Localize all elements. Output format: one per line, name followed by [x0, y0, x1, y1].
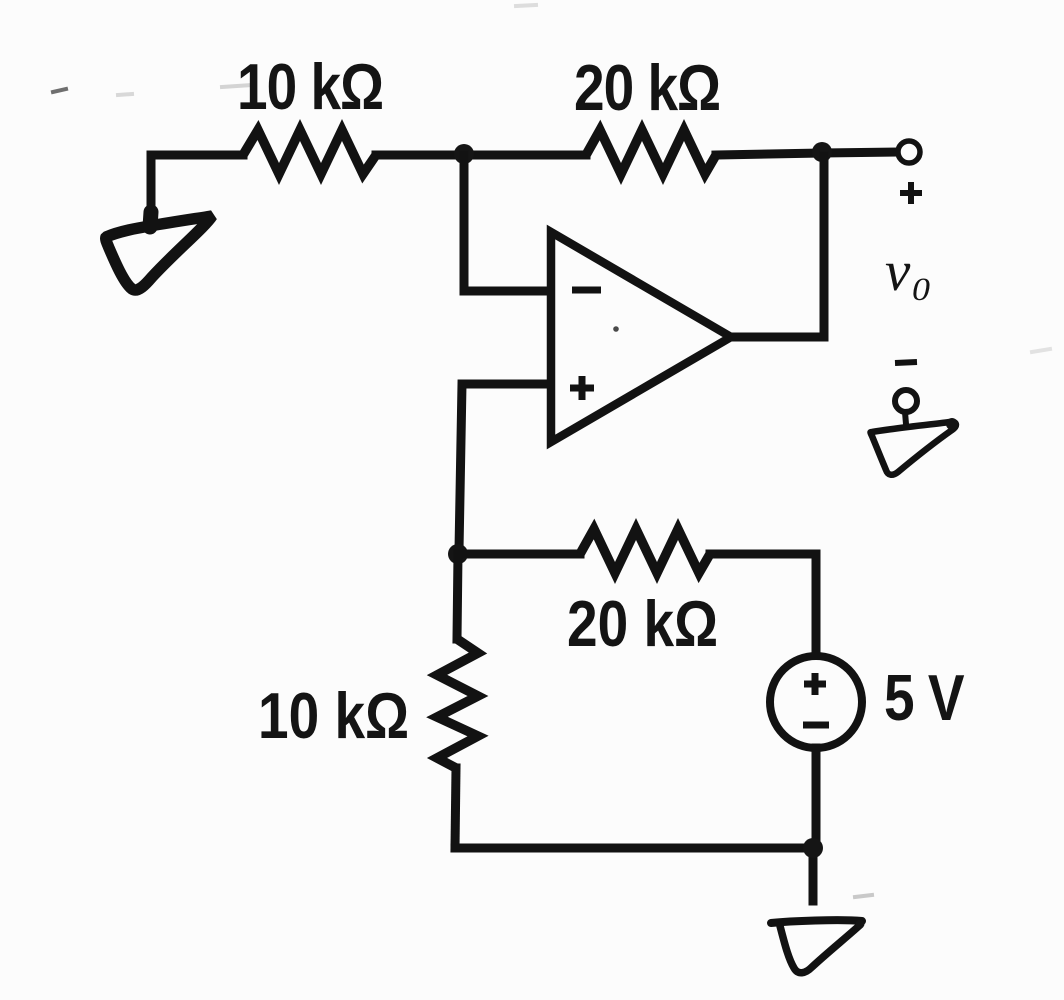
svg-text:v: v	[885, 240, 911, 303]
svg-text:0: 0	[912, 272, 931, 308]
